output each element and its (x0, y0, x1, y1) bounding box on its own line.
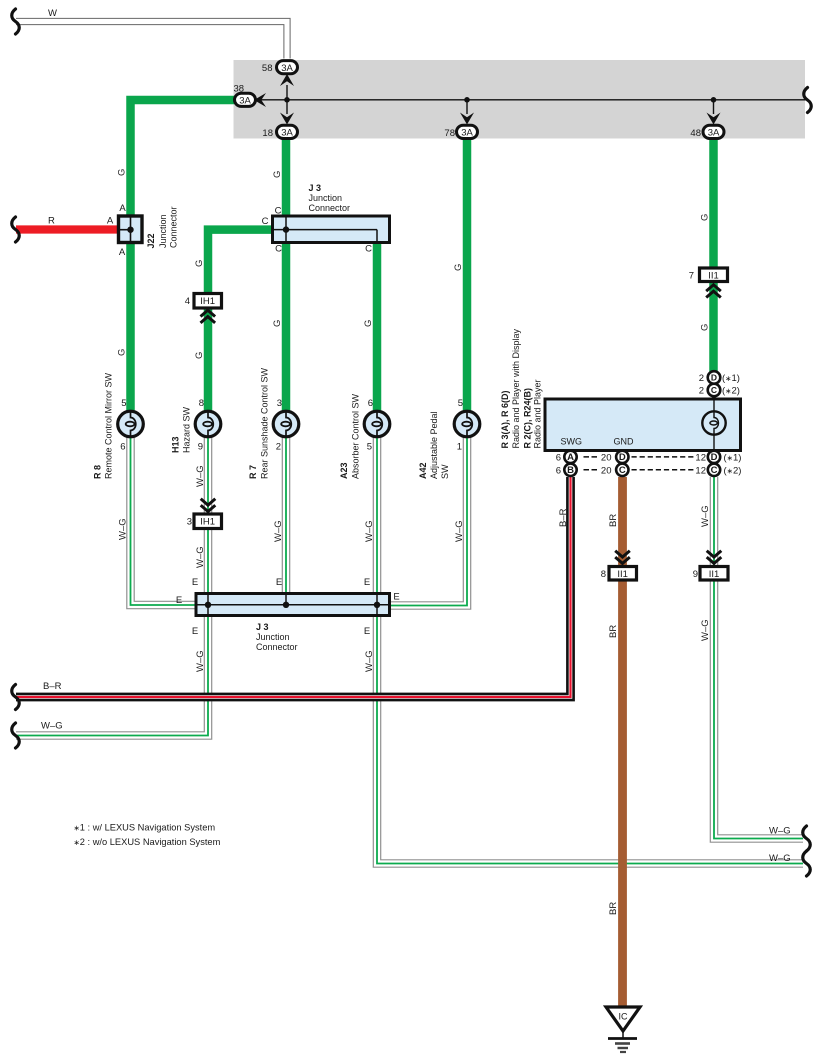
svg-text:W–G: W–G (454, 520, 465, 542)
svg-text:6: 6 (556, 465, 561, 476)
svg-text:2: 2 (699, 386, 704, 397)
svg-text:BR: BR (608, 514, 619, 527)
svg-text:A: A (119, 203, 126, 214)
svg-text:C: C (275, 206, 282, 217)
svg-text:6: 6 (556, 453, 561, 464)
svg-text:W–G: W–G (118, 518, 129, 540)
svg-text:D: D (711, 373, 717, 383)
svg-text:BR: BR (608, 902, 619, 915)
svg-text:∗2 : w/o LEXUS Navigation Syst: ∗2 : w/o LEXUS Navigation System (74, 837, 221, 847)
svg-text:E: E (393, 592, 399, 603)
svg-text:3A: 3A (239, 96, 251, 107)
svg-text:E: E (276, 577, 282, 588)
svg-text:8: 8 (601, 569, 606, 580)
svg-text:C: C (262, 216, 269, 227)
svg-text:J 3: J 3 (256, 622, 269, 632)
svg-text:G: G (272, 320, 283, 327)
svg-text:II1: II1 (709, 569, 720, 580)
svg-text:58: 58 (262, 63, 273, 74)
svg-text:R 2(C), R24(B): R 2(C), R24(B) (523, 388, 533, 449)
svg-text:B–R: B–R (558, 508, 569, 527)
svg-text:A: A (567, 452, 574, 463)
svg-text:II1: II1 (708, 271, 719, 282)
svg-text:Absorber Control SW: Absorber Control SW (351, 393, 361, 479)
svg-text:(∗1): (∗1) (722, 373, 740, 384)
svg-text:C: C (365, 244, 372, 255)
svg-text:3: 3 (187, 517, 192, 528)
svg-text:W: W (48, 8, 57, 19)
svg-text:C: C (275, 244, 282, 255)
svg-text:Hazard SW: Hazard SW (182, 406, 192, 453)
svg-text:W–G: W–G (273, 520, 284, 542)
svg-text:R: R (48, 216, 55, 227)
svg-text:E: E (364, 626, 370, 637)
svg-text:C: C (711, 465, 718, 476)
svg-text:Rear Sunshade Control SW: Rear Sunshade Control SW (260, 367, 270, 479)
svg-text:5: 5 (121, 398, 126, 409)
svg-text:4: 4 (185, 296, 190, 307)
svg-text:C: C (619, 465, 626, 476)
svg-text:G: G (363, 320, 374, 327)
svg-text:W–G: W–G (769, 826, 791, 837)
svg-text:J22: J22 (146, 233, 156, 248)
svg-text:G: G (194, 260, 205, 267)
svg-text:Connector: Connector (309, 203, 351, 213)
svg-text:38: 38 (234, 84, 245, 95)
svg-text:7: 7 (689, 271, 694, 282)
svg-text:B–R: B–R (43, 681, 62, 692)
svg-text:W–G: W–G (41, 720, 63, 731)
svg-text:6: 6 (120, 442, 125, 453)
svg-text:18: 18 (262, 128, 273, 139)
svg-text:W–G: W–G (195, 546, 206, 568)
svg-text:A23: A23 (339, 462, 349, 479)
svg-text:C: C (711, 385, 717, 395)
svg-text:Radio and Player: Radio and Player (533, 379, 543, 448)
svg-text:IC: IC (619, 1012, 629, 1022)
svg-text:W–G: W–G (364, 520, 375, 542)
svg-text:Connector: Connector (169, 206, 179, 248)
svg-text:G: G (117, 169, 128, 176)
svg-text:Radio and Player with Display: Radio and Player with Display (511, 328, 521, 448)
svg-text:A: A (119, 247, 126, 258)
svg-text:Remote Control Mirror SW: Remote Control Mirror SW (104, 372, 114, 479)
svg-text:9: 9 (693, 569, 698, 580)
svg-text:GND: GND (614, 437, 635, 447)
svg-text:E: E (364, 577, 370, 588)
svg-text:B: B (567, 465, 574, 476)
svg-text:G: G (194, 352, 205, 359)
svg-text:20: 20 (601, 465, 612, 476)
svg-text:3A: 3A (281, 128, 293, 139)
svg-text:1: 1 (457, 442, 462, 453)
svg-text:SW: SW (440, 464, 450, 479)
svg-text:2: 2 (276, 442, 281, 453)
svg-text:R 8: R 8 (93, 465, 103, 479)
svg-text:5: 5 (367, 442, 372, 453)
svg-text:Connector: Connector (256, 642, 298, 652)
svg-text:E: E (192, 626, 198, 637)
svg-text:R 7: R 7 (248, 465, 258, 479)
svg-text:G: G (272, 171, 283, 178)
svg-text:Junction: Junction (256, 632, 290, 642)
svg-text:SWG: SWG (561, 437, 583, 447)
svg-text:A42: A42 (418, 462, 428, 479)
svg-text:3A: 3A (708, 128, 720, 139)
svg-text:(∗2): (∗2) (722, 386, 740, 397)
svg-text:A: A (107, 216, 114, 227)
svg-text:G: G (117, 349, 128, 356)
svg-text:II1: II1 (617, 569, 628, 580)
svg-text:G: G (700, 324, 711, 331)
svg-text:12: 12 (695, 453, 706, 464)
svg-text:W–G: W–G (769, 853, 791, 864)
svg-text:2: 2 (699, 373, 704, 384)
svg-text:D: D (619, 452, 626, 463)
svg-text:IH1: IH1 (200, 296, 215, 307)
svg-text:20: 20 (601, 453, 612, 464)
svg-text:R 3(A), R 6(D): R 3(A), R 6(D) (500, 390, 510, 448)
svg-text:78: 78 (444, 128, 455, 139)
svg-text:W–G: W–G (364, 650, 375, 672)
svg-text:E: E (192, 577, 198, 588)
svg-text:IH1: IH1 (200, 517, 215, 528)
svg-text:J 3: J 3 (309, 183, 322, 193)
svg-text:Junction: Junction (158, 214, 168, 248)
svg-text:G: G (700, 214, 711, 221)
svg-text:(∗2): (∗2) (724, 465, 742, 476)
svg-text:8: 8 (199, 398, 204, 409)
svg-text:48: 48 (690, 128, 701, 139)
svg-text:9: 9 (198, 442, 203, 453)
svg-text:∗1 : w/ LEXUS Navigation Syste: ∗1 : w/ LEXUS Navigation System (74, 822, 216, 832)
svg-text:Junction: Junction (309, 193, 343, 203)
svg-text:6: 6 (368, 398, 373, 409)
svg-text:(∗1): (∗1) (724, 453, 742, 464)
svg-text:H13: H13 (171, 436, 181, 453)
svg-text:Adjustable Pedal: Adjustable Pedal (429, 411, 439, 479)
svg-text:W–G: W–G (195, 650, 206, 672)
svg-text:E: E (176, 595, 182, 606)
svg-text:3A: 3A (281, 63, 293, 74)
svg-text:G: G (453, 264, 464, 271)
svg-text:W–G: W–G (700, 619, 711, 641)
svg-text:3A: 3A (461, 128, 473, 139)
svg-text:5: 5 (458, 398, 463, 409)
svg-text:D: D (711, 452, 718, 463)
svg-text:W–G: W–G (195, 465, 206, 487)
svg-text:BR: BR (608, 625, 619, 638)
svg-text:3: 3 (277, 398, 282, 409)
svg-text:12: 12 (695, 465, 706, 476)
svg-text:W–G: W–G (700, 505, 711, 527)
